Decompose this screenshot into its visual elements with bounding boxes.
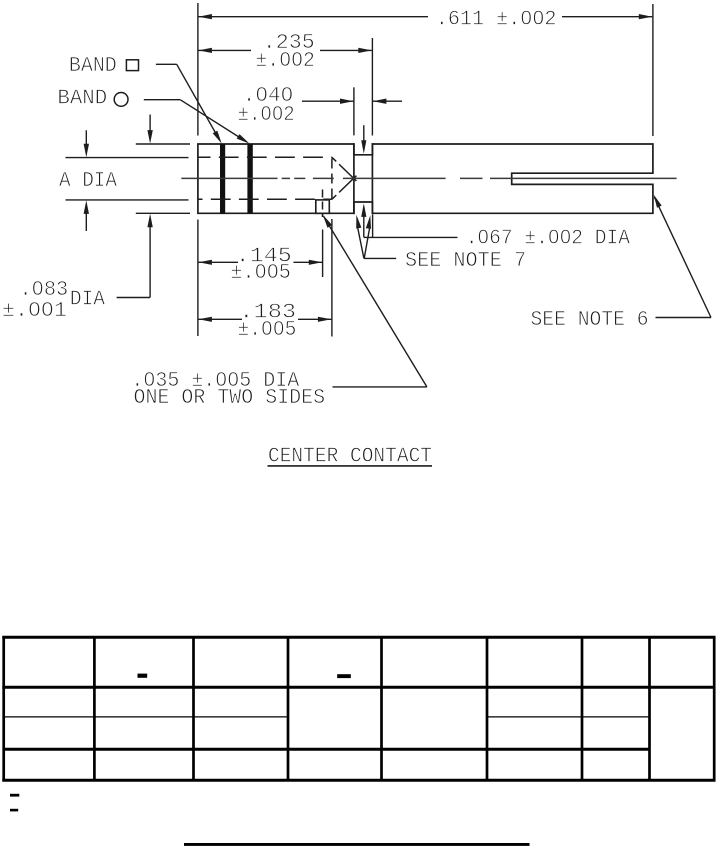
svg-text:SEE NOTE 7: SEE NOTE 7 xyxy=(405,250,526,273)
svg-text:DIA: DIA xyxy=(70,288,105,311)
svg-text:±.005: ±.005 xyxy=(230,262,291,285)
svg-text:BAND: BAND xyxy=(57,88,107,111)
svg-text:.067 ±.002 DIA: .067 ±.002 DIA xyxy=(466,228,631,251)
svg-text:ONE OR TWO SIDES: ONE OR TWO SIDES xyxy=(134,387,326,410)
svg-text:BAND: BAND xyxy=(69,55,117,78)
svg-text:±.005: ±.005 xyxy=(238,319,297,342)
svg-text:A DIA: A DIA xyxy=(59,170,117,193)
svg-text:SEE NOTE 6: SEE NOTE 6 xyxy=(531,309,649,332)
svg-text:.083: .083 xyxy=(20,279,69,302)
